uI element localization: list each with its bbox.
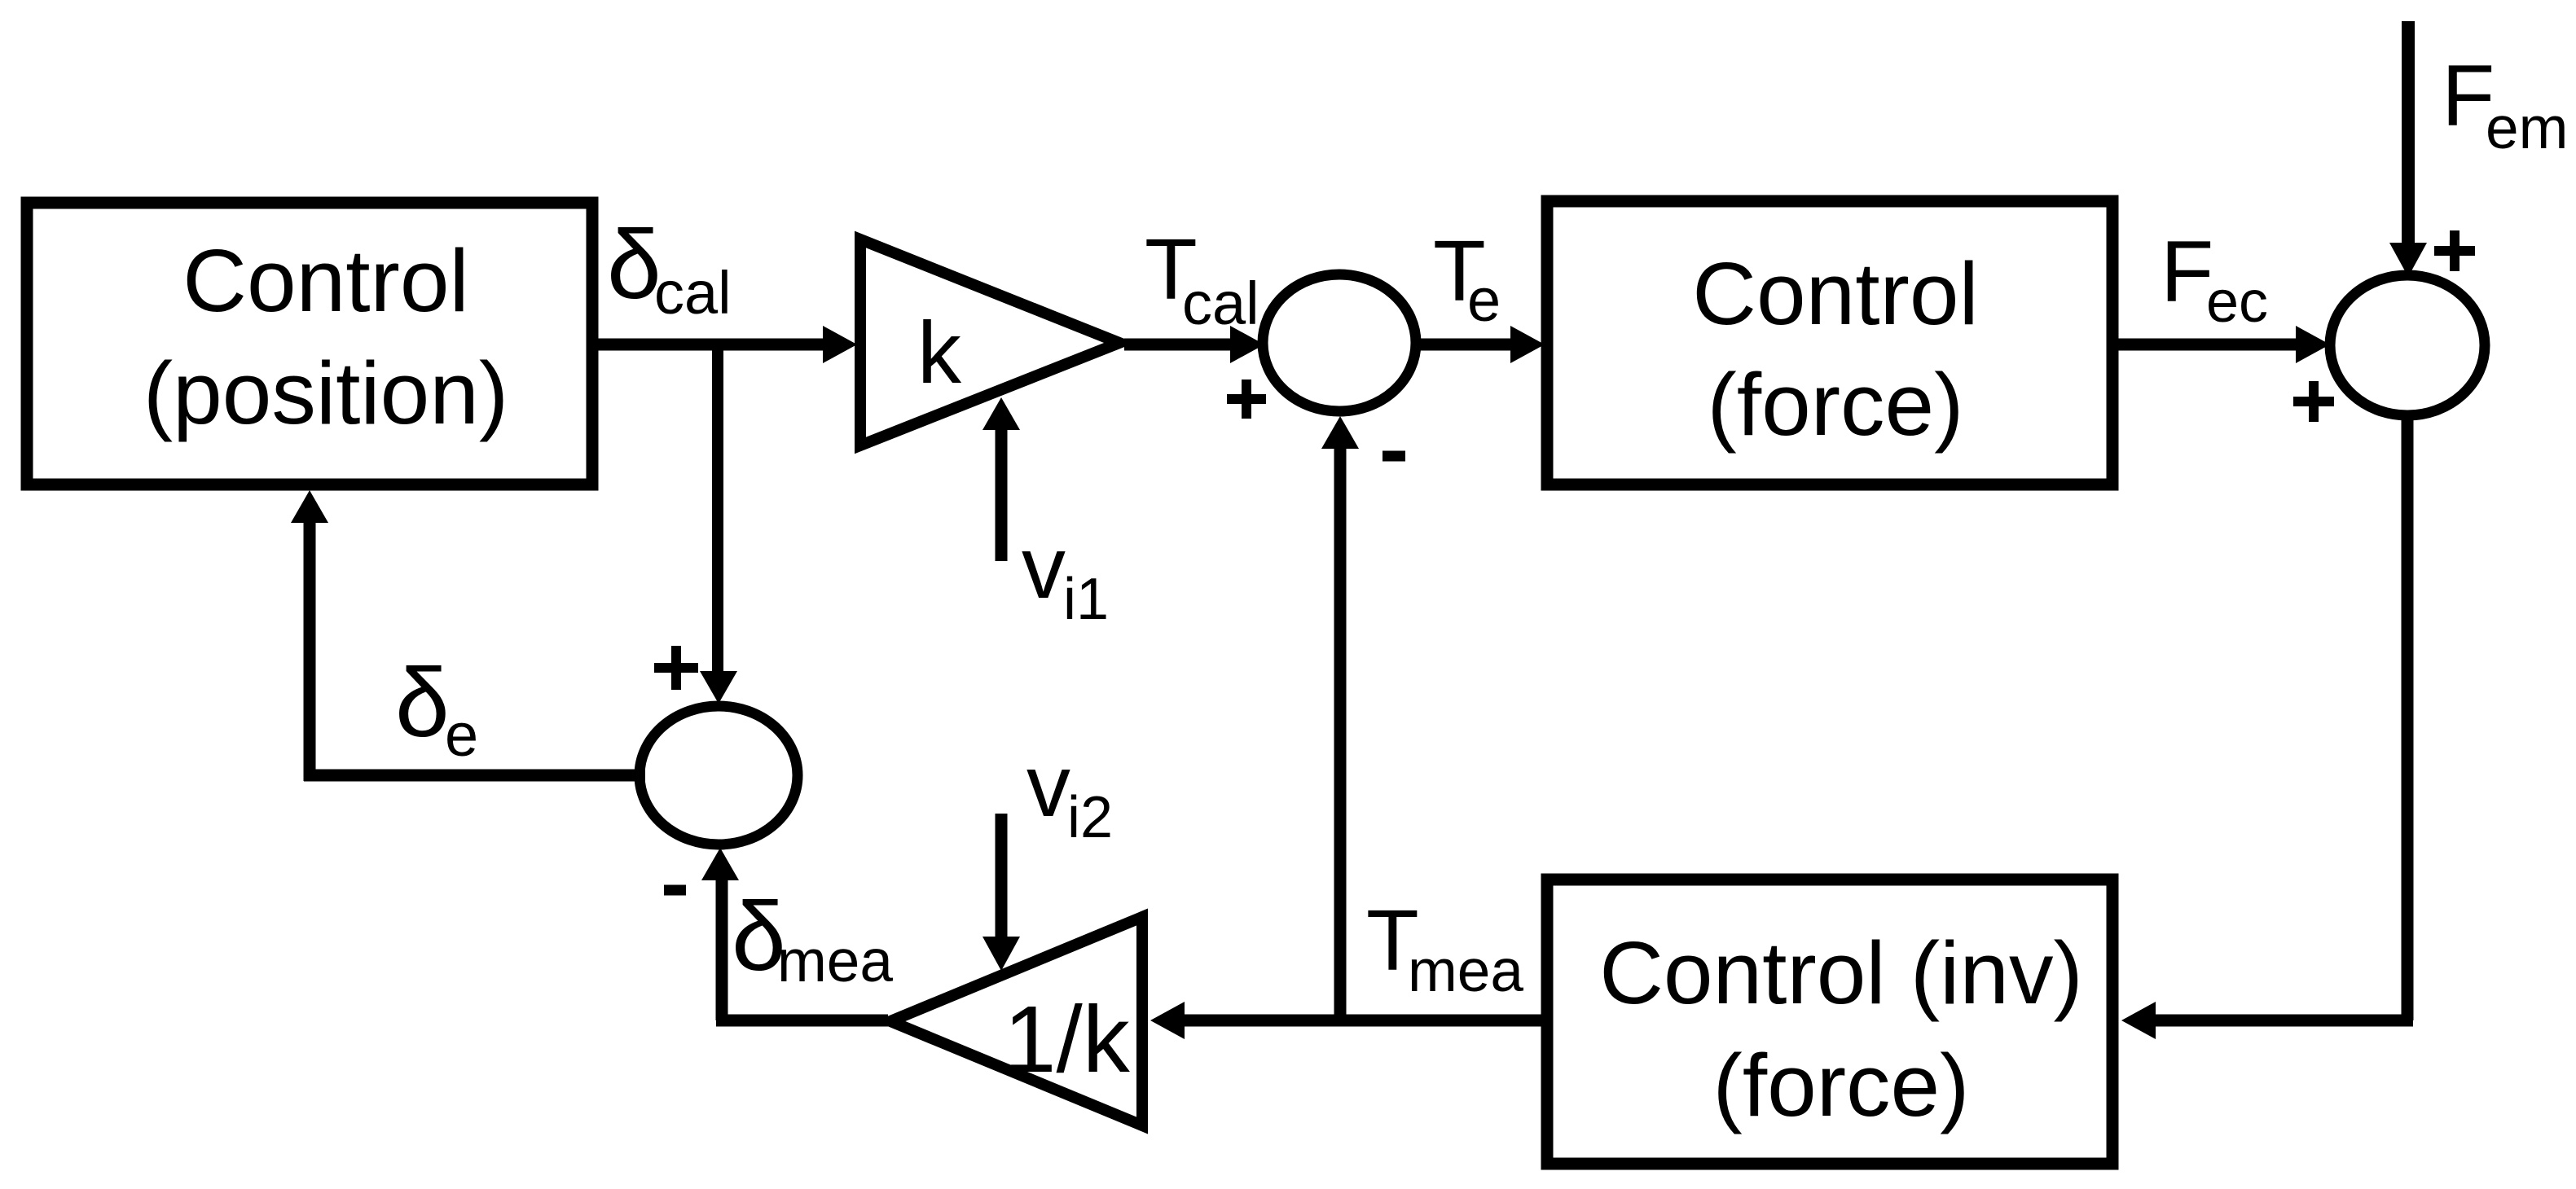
- summing junction S1: [1263, 274, 1416, 411]
- sign plus at S2 left: [2293, 381, 2334, 422]
- svg-text:ec: ec: [2206, 270, 2268, 335]
- svg-text:v: v: [1026, 736, 1070, 835]
- svg-text:cal: cal: [1182, 270, 1259, 337]
- svg-text:Control: Control: [182, 231, 468, 331]
- wire S3 to left: [304, 770, 645, 782]
- label F_ec: [2161, 222, 2268, 335]
- wire F_em input: [2389, 21, 2427, 277]
- wire delta_e up to B1: [291, 490, 328, 781]
- wire v_i1 input: [982, 397, 1020, 561]
- svg-text:v: v: [1022, 518, 1066, 616]
- wire k apex to S1: [1124, 326, 1264, 363]
- wire B3 to 1/k triangle: [1150, 1002, 1547, 1039]
- svg-text:k: k: [917, 303, 962, 401]
- summing junction S2: [2330, 275, 2485, 415]
- svg-text:em: em: [2486, 95, 2568, 161]
- block Control (inv)(force): [1547, 880, 2112, 1164]
- wire 1/k apex left: [716, 1015, 888, 1027]
- wire B2 to S2: [2112, 326, 2330, 363]
- label T_e: [1433, 223, 1501, 334]
- label T_mea: [1366, 893, 1523, 1004]
- sign plus at S2 top: [2434, 230, 2475, 271]
- svg-text:mea: mea: [777, 928, 893, 994]
- sign plus at S3: [654, 646, 698, 690]
- gain triangle k: [860, 239, 1119, 445]
- block Control (position): [27, 203, 592, 485]
- wire S2 down: [2402, 415, 2414, 1020]
- svg-text:δ: δ: [607, 210, 662, 319]
- svg-text:i1: i1: [1063, 567, 1109, 632]
- sign minus at S3: [664, 885, 686, 896]
- svg-text:mea: mea: [1408, 938, 1523, 1004]
- sign plus at S1: [1227, 380, 1266, 419]
- svg-text:1/k: 1/k: [1004, 986, 1131, 1092]
- wire B1 to k triangle: [592, 326, 857, 363]
- label delta_e: [395, 648, 478, 769]
- svg-text:cal: cal: [654, 259, 732, 327]
- label delta_mea: [732, 882, 893, 994]
- svg-text:Control (inv): Control (inv): [1599, 924, 2083, 1023]
- sign minus at S1: [1383, 451, 1405, 462]
- block Control (force): [1547, 201, 2112, 485]
- label v_i2: [1026, 736, 1113, 850]
- summing junction S3: [640, 706, 798, 845]
- svg-text:(force): (force): [1708, 355, 1964, 454]
- svg-text:Control: Control: [1692, 244, 1978, 344]
- svg-text:δ: δ: [395, 648, 450, 757]
- wire S1 to B2: [1416, 326, 1545, 363]
- label v_i1: [1022, 518, 1109, 632]
- wire v_i2 input: [982, 814, 1020, 971]
- node delta_cal branch: [712, 344, 723, 676]
- label delta_cal: [607, 210, 732, 327]
- junction T_mea branch: [1321, 416, 1359, 1020]
- wire branch down to S3 top: [700, 671, 737, 704]
- svg-text:i2: i2: [1067, 785, 1113, 850]
- svg-text:(force): (force): [1713, 1036, 1970, 1135]
- svg-text:(position): (position): [143, 344, 508, 443]
- svg-text:e: e: [1467, 266, 1501, 334]
- wire up to S3 bottom: [701, 848, 739, 1020]
- gain triangle 1/k: [890, 917, 1142, 1125]
- wire right to B3: [2121, 1002, 2413, 1039]
- label T_cal: [1145, 222, 1259, 337]
- svg-text:e: e: [445, 701, 478, 769]
- label F_em: [2442, 46, 2568, 161]
